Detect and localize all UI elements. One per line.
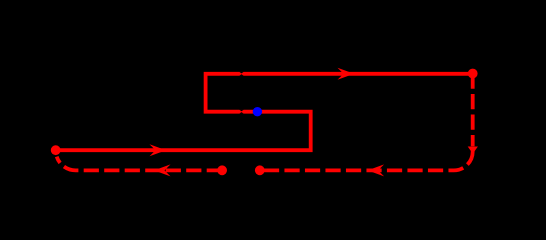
wire dashed return path left: from inner dot along bottom and up to start dot — [57, 157, 222, 171]
arrow left on bottom-left dashed line — [154, 164, 171, 176]
node start dot (left) — [51, 145, 61, 155]
node end dot (top right) — [468, 69, 478, 79]
arrow left on bottom-right dashed line — [368, 164, 385, 176]
wire dashed return path right: vertical from top-right dot down — [471, 74, 475, 147]
wire join pinch on top line — [239, 72, 244, 74]
wire dashed return path right: corner arc and along bottom to inner dot — [260, 151, 473, 170]
arrow down on right dashed vertical — [468, 147, 478, 154]
wire join pinch on middle line — [239, 110, 244, 112]
node bottom gap dot right — [255, 165, 265, 175]
node marked point (blue) — [253, 107, 262, 116]
arrow right on top solid line — [338, 68, 355, 80]
node bottom gap dot left — [217, 165, 227, 175]
wire solid contour path gamma — [56, 74, 473, 150]
arrow right on bottom solid line — [150, 144, 167, 156]
